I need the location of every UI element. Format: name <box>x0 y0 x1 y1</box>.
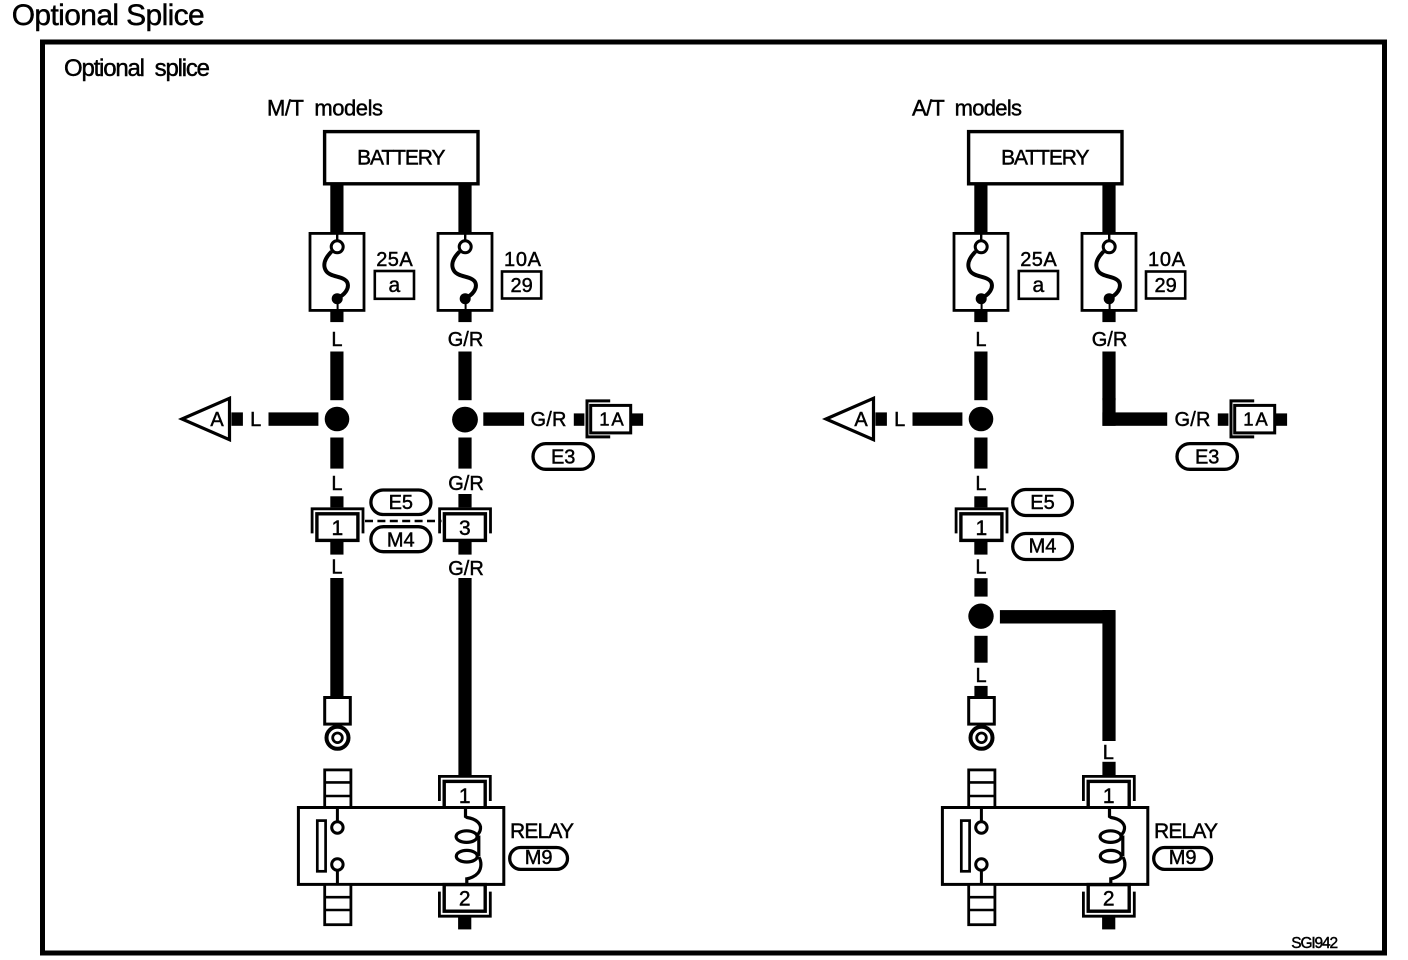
svg-text:G/R: G/R <box>448 473 484 495</box>
svg-text:Optional splice: Optional splice <box>64 55 210 82</box>
svg-text:E5: E5 <box>1030 492 1054 514</box>
svg-text:L: L <box>975 665 986 687</box>
svg-text:A/T models: A/T models <box>912 96 1022 121</box>
svg-text:3: 3 <box>459 517 471 540</box>
svg-text:G/R: G/R <box>448 558 484 580</box>
svg-text:M4: M4 <box>1029 536 1057 558</box>
svg-text:M4: M4 <box>387 530 415 552</box>
svg-text:SGI942: SGI942 <box>1291 935 1338 952</box>
svg-text:L: L <box>1103 742 1114 764</box>
svg-text:M/T models: M/T models <box>267 96 383 121</box>
svg-text:Optional Splice: Optional Splice <box>12 0 205 32</box>
svg-text:E5: E5 <box>389 492 413 514</box>
